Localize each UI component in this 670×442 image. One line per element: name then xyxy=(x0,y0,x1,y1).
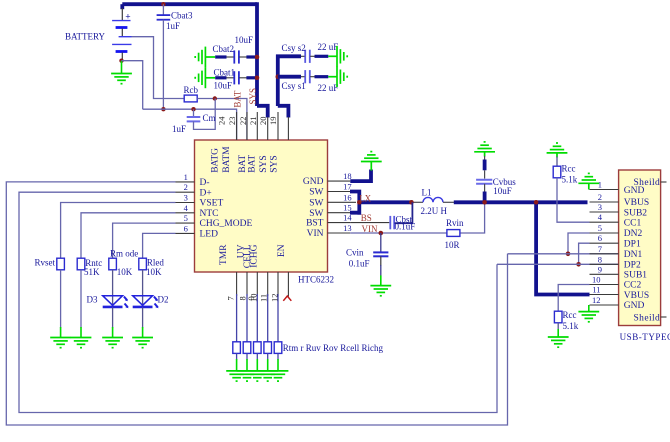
pin 21 stub top xyxy=(267,117,269,140)
wire VBUS thick branch down to pin11 xyxy=(536,202,589,294)
ground Rntc xyxy=(71,338,92,348)
wire ICHG pin10 to Rcell xyxy=(267,294,269,342)
svg-text:SYS: SYS xyxy=(259,155,269,172)
node Cbat3 bottom junction xyxy=(161,107,165,111)
svg-text:5: 5 xyxy=(598,223,602,233)
svg-text:BST: BST xyxy=(306,219,324,229)
capacitor Cbst xyxy=(350,202,412,229)
svg-text:7: 7 xyxy=(225,296,235,300)
ground D3 xyxy=(102,338,123,348)
resistor Rcell xyxy=(264,342,272,354)
capacitor Cm xyxy=(187,99,216,130)
wire Rled to D2 xyxy=(142,270,144,306)
svg-text:LED: LED xyxy=(200,230,219,240)
svg-text:BAT: BAT xyxy=(233,90,243,108)
wire CELL pin9 to Rov xyxy=(256,294,258,342)
pin 15 stub right xyxy=(328,212,351,214)
svg-text:Rtm r Ruv Rov Rcell Richg: Rtm r Ruv Rov Rcell Richg xyxy=(283,343,384,353)
node Cm upper junction xyxy=(213,96,217,100)
svg-text:L1: L1 xyxy=(422,187,432,197)
inductor L1 xyxy=(413,197,454,202)
pin 20 stub top xyxy=(277,112,279,140)
resistor Ruv xyxy=(243,342,251,354)
svg-text:BAT: BAT xyxy=(238,155,248,173)
ground Rcell xyxy=(257,371,278,381)
svg-text:Rcc: Rcc xyxy=(563,310,577,320)
ground pin18 inverted xyxy=(361,152,382,171)
capacitor Cvbus xyxy=(476,156,492,202)
svg-text:CC2: CC2 xyxy=(624,281,642,291)
svg-text:3: 3 xyxy=(184,193,188,203)
ground Rov xyxy=(247,371,268,381)
svg-text:Cm: Cm xyxy=(203,113,216,123)
wire BAT rail thick vertical xyxy=(257,2,268,117)
svg-text:Rled: Rled xyxy=(147,257,164,267)
wire L1 to VBUS thick xyxy=(454,200,588,204)
connector pin stubs 1-12 xyxy=(590,190,619,306)
svg-text:EN: EN xyxy=(277,244,287,257)
svg-text:DP2: DP2 xyxy=(624,261,641,271)
wire SW bracket thick xyxy=(350,190,413,215)
pin 24 stub top xyxy=(236,112,238,140)
svg-text:10uF: 10uF xyxy=(214,81,233,91)
svg-text:ICHG: ICHG xyxy=(250,244,260,267)
svg-text:5: 5 xyxy=(184,213,188,223)
ground D2 xyxy=(132,338,153,348)
node Cbat2 rail junction xyxy=(255,55,260,60)
resistor Rcb xyxy=(184,95,197,102)
wire DN1 line xyxy=(508,253,619,255)
wire VIN pin13 to VBUS xyxy=(350,202,484,233)
svg-text:2: 2 xyxy=(598,192,602,202)
svg-text:0.1uF: 0.1uF xyxy=(349,258,370,268)
svg-text:Rm ode: Rm ode xyxy=(110,249,138,259)
pin 19 stub top xyxy=(287,117,289,140)
svg-text:SYS: SYS xyxy=(248,88,258,105)
wire Rtmr to ground xyxy=(236,353,238,370)
wire GND pin18 thick to ground xyxy=(350,170,371,182)
wire Rcell to ground xyxy=(267,353,269,370)
svg-text:21: 21 xyxy=(248,117,258,125)
pin 4 stub left xyxy=(176,212,195,214)
svg-text:8: 8 xyxy=(598,254,602,264)
ground Cvin xyxy=(370,286,391,296)
svg-text:BAT: BAT xyxy=(248,155,258,173)
svg-text:LX: LX xyxy=(359,193,371,203)
ground Richg xyxy=(268,371,289,381)
battery BT BATTERY xyxy=(112,8,131,61)
svg-text:11: 11 xyxy=(592,285,600,295)
wire D+ pin2 loop to DP2 xyxy=(19,192,497,412)
svg-text:1uF: 1uF xyxy=(172,124,186,134)
svg-text:BATTERY: BATTERY xyxy=(65,32,106,42)
pin 13 stub right xyxy=(328,232,351,234)
svg-text:SW: SW xyxy=(309,198,323,208)
svg-text:D-: D- xyxy=(200,178,210,188)
ground Cbat2 left xyxy=(195,47,215,68)
pin 16 stub right xyxy=(328,201,357,203)
ground battery xyxy=(111,61,132,84)
svg-text:20: 20 xyxy=(258,117,268,126)
wire Rcc bottom to ground xyxy=(557,323,559,337)
connector sheild tab top xyxy=(661,181,667,183)
svg-text:TMR: TMR xyxy=(219,244,229,265)
resistor Rtmr xyxy=(233,342,241,354)
node Cbat3 top junction xyxy=(161,2,165,6)
pin 2 stub left xyxy=(176,191,195,193)
svg-text:Cbat2: Cbat2 xyxy=(213,44,235,54)
svg-text:5.1k: 5.1k xyxy=(562,175,578,185)
pin 23 stub top xyxy=(246,112,248,140)
pin 7 stub bottom xyxy=(236,272,238,296)
svg-text:Cvin: Cvin xyxy=(346,247,364,257)
svg-text:23: 23 xyxy=(227,117,237,126)
wire DP1 pin6 hook xyxy=(579,243,590,264)
svg-text:16: 16 xyxy=(343,192,352,202)
wire Rvset to ground xyxy=(60,270,62,338)
op-amp U1 HTC6232 body xyxy=(195,140,328,272)
pin 11 stub bottom xyxy=(277,272,279,296)
resistor Rled xyxy=(139,258,147,270)
wire lower rail BATG to pin 24 xyxy=(143,109,237,140)
LED D2 xyxy=(133,296,159,309)
svg-text:VBUS: VBUS xyxy=(624,291,649,301)
svg-text:D3: D3 xyxy=(87,295,98,305)
resistor Rvin xyxy=(447,230,460,237)
svg-text:11: 11 xyxy=(259,294,269,302)
pin 22 stub top xyxy=(256,112,258,140)
svg-text:HTC6232: HTC6232 xyxy=(298,274,334,284)
capacitor Cbat2 xyxy=(215,50,257,63)
pin 3 stub left xyxy=(176,202,195,204)
connector sheild tab bottom xyxy=(661,316,667,318)
svg-text:1: 1 xyxy=(184,172,188,182)
wire D- pin1 loop to DN1 xyxy=(6,182,507,425)
wire top thick BAT from battery+ to BAT rail xyxy=(122,4,257,9)
svg-text:DN2: DN2 xyxy=(624,229,643,239)
wire Rntc to ground xyxy=(80,270,82,338)
resistor Richg xyxy=(274,342,282,354)
ground Rcc top inverted xyxy=(547,143,568,158)
svg-text:10uF: 10uF xyxy=(493,186,512,196)
svg-text:CC1: CC1 xyxy=(624,218,642,228)
wire Ruv to ground xyxy=(246,353,248,370)
pin 10 stub bottom xyxy=(267,272,269,296)
svg-text:BS: BS xyxy=(361,213,372,223)
svg-text:6: 6 xyxy=(184,223,188,233)
wire Richg to ground xyxy=(277,353,279,370)
capacitor Csys1 xyxy=(278,70,329,83)
svg-text:2: 2 xyxy=(184,182,188,192)
wire Rmode to D3 xyxy=(112,270,114,306)
resistor Rov xyxy=(253,342,261,354)
svg-text:51K: 51K xyxy=(84,267,100,277)
connector pin numbers 1-12 xyxy=(592,180,603,306)
svg-text:CHG_MODE: CHG_MODE xyxy=(200,219,253,229)
svg-text:Cbat1: Cbat1 xyxy=(214,67,236,77)
wire TMR pin7 to Rtmr xyxy=(236,294,238,342)
svg-text:10uF: 10uF xyxy=(235,35,254,45)
svg-text:VBUS: VBUS xyxy=(624,198,649,208)
capacitor Cbat3 xyxy=(157,4,171,109)
pin 6 stub left xyxy=(176,232,195,234)
pin 12 stub bottom xyxy=(287,272,289,297)
pin 9 stub bottom xyxy=(256,272,258,296)
svg-text:22 uF: 22 uF xyxy=(318,83,339,93)
wire battery mid tap xyxy=(132,37,185,99)
svg-text:NTC: NTC xyxy=(200,209,219,219)
wire SYS rail thick xyxy=(276,55,301,118)
pin 1 stub left xyxy=(176,181,195,183)
svg-text:Sheild: Sheild xyxy=(634,313,661,323)
svg-text:22 uF: 22 uF xyxy=(318,42,339,52)
svg-text:BATM: BATM xyxy=(222,146,232,173)
svg-text:Rcc: Rcc xyxy=(562,164,576,174)
svg-text:+: + xyxy=(125,13,130,23)
pin 8 stub bottom xyxy=(246,272,248,296)
ground Cbat1 left xyxy=(195,67,215,88)
node Cvin junction xyxy=(379,231,384,236)
wire VSET pin3 to Rvset xyxy=(61,203,176,259)
svg-text:1uF: 1uF xyxy=(166,21,180,31)
svg-text:Rvin: Rvin xyxy=(446,218,464,228)
resistor Rmode xyxy=(109,258,117,270)
svg-text:DP1: DP1 xyxy=(624,239,641,249)
capacitor Cvin xyxy=(373,233,388,285)
wire D2 to ground xyxy=(142,308,144,338)
node VBUS branch junction xyxy=(534,200,539,205)
node Cm top junction xyxy=(191,107,195,111)
svg-text:1: 1 xyxy=(598,180,602,190)
ground connector pin12 xyxy=(578,305,599,322)
pin 18 stub right xyxy=(328,180,351,182)
svg-text:USB-TYPEC: USB-TYPEC xyxy=(620,332,670,342)
svg-text:19: 19 xyxy=(268,117,278,126)
svg-text:22: 22 xyxy=(238,117,248,126)
svg-text:DN1: DN1 xyxy=(624,250,643,260)
svg-text:Cbat3: Cbat3 xyxy=(171,11,193,21)
ground connector pin1 inverted xyxy=(578,173,599,189)
wire D3 to ground xyxy=(112,308,114,338)
svg-text:SUB2: SUB2 xyxy=(624,208,647,218)
svg-text:VIN: VIN xyxy=(307,229,324,239)
svg-text:13: 13 xyxy=(343,223,352,233)
ground Rcc bottom xyxy=(548,337,569,347)
svg-text:10K: 10K xyxy=(146,267,162,277)
svg-text:Rcb: Rcb xyxy=(184,85,199,95)
node DN1 junction xyxy=(566,252,571,257)
wire pin11 to Richg xyxy=(277,294,279,342)
no-connect X on pin 12 xyxy=(283,296,291,301)
svg-text:5.1k: 5.1k xyxy=(563,321,579,331)
svg-text:10K: 10K xyxy=(117,267,133,277)
svg-text:7: 7 xyxy=(598,244,602,254)
resistor Rcc bottom xyxy=(554,311,562,323)
pin names top rotated BATG BATM BAT BAT SYS SYS xyxy=(211,146,280,173)
svg-text:2.2U H: 2.2U H xyxy=(421,206,448,216)
svg-text:Rvset: Rvset xyxy=(34,257,55,267)
svg-text:3: 3 xyxy=(598,202,602,212)
svg-text:12: 12 xyxy=(592,295,601,305)
svg-text:GND: GND xyxy=(624,301,645,311)
svg-text:D+: D+ xyxy=(200,188,212,198)
wire battery negative to lower rail xyxy=(122,61,143,109)
resistor Rvset xyxy=(57,258,65,270)
node Cvbus junction xyxy=(482,200,487,205)
svg-text:SYS: SYS xyxy=(270,155,280,172)
wire CHG_MODE pin5 to Rmode xyxy=(113,223,176,258)
svg-text:GND: GND xyxy=(624,186,645,196)
node Cbst junction on SW xyxy=(409,200,414,205)
capacitor Cbat1 xyxy=(215,71,257,84)
svg-text:BATG: BATG xyxy=(211,148,221,173)
node Csys1 rail junction xyxy=(276,74,281,79)
pin 14 stub right xyxy=(328,222,351,224)
svg-text:6: 6 xyxy=(598,233,602,243)
svg-text:0.1uF: 0.1uF xyxy=(395,222,416,232)
svg-text:SW: SW xyxy=(309,188,323,198)
ground Rtmr xyxy=(226,371,247,381)
node DP2 junction xyxy=(576,262,581,267)
pin 5 stub left xyxy=(176,222,195,224)
svg-text:Csy s2: Csy s2 xyxy=(282,43,306,53)
resistor Rcc top xyxy=(553,157,589,223)
connector J1 USB-TYPEC body xyxy=(619,170,661,326)
capacitor Csys2 xyxy=(301,50,328,63)
node SW junction xyxy=(357,200,362,205)
ground Ruv xyxy=(237,371,258,381)
pin 17 stub right xyxy=(328,191,351,193)
wire UV pin8 to Ruv xyxy=(246,294,248,342)
node Cbat1 rail junction xyxy=(255,76,260,81)
wire LED pin6 to Rled xyxy=(143,233,176,258)
connector pin names xyxy=(624,178,660,323)
svg-text:4: 4 xyxy=(184,203,189,213)
LED D3 xyxy=(103,296,129,309)
svg-text:SUB1: SUB1 xyxy=(624,271,647,281)
wire Rcb to pin 23 BATM xyxy=(197,99,247,141)
svg-text:10R: 10R xyxy=(445,240,460,250)
resistor Rntc xyxy=(77,258,85,270)
ground Rvset xyxy=(50,338,71,348)
svg-text:VSET: VSET xyxy=(200,199,224,209)
svg-text:D2: D2 xyxy=(158,295,169,305)
svg-text:24: 24 xyxy=(217,116,227,125)
svg-text:9: 9 xyxy=(598,264,602,274)
wire CC2 pin10 to Rcc xyxy=(558,285,589,312)
ground Csys1 right xyxy=(328,66,347,87)
svg-text:10: 10 xyxy=(592,275,601,285)
svg-text:Csy s1: Csy s1 xyxy=(282,81,306,91)
wire Rov to ground xyxy=(256,353,258,370)
wire NTC pin4 to Rntc xyxy=(81,213,176,258)
node battery negative junction xyxy=(119,59,123,63)
svg-text:GND: GND xyxy=(303,177,324,187)
wire DN2 pin5 hook xyxy=(568,233,590,254)
wire DP2 line xyxy=(497,263,619,265)
ground Cvbus inverted xyxy=(474,142,495,157)
svg-text:SW: SW xyxy=(309,209,323,219)
ground Csys2 right xyxy=(328,46,347,67)
